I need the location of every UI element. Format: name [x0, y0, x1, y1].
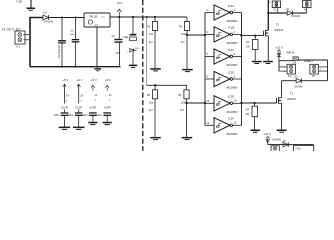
svg-text:100n: 100n — [96, 114, 102, 117]
svg-text:+5 V: +5 V — [91, 78, 97, 82]
svg-text:C2 470µ 25V: C2 470µ 25V — [57, 45, 59, 59]
svg-text:1N4148: 1N4148 — [286, 51, 295, 54]
svg-text:100n: 100n — [70, 34, 76, 36]
svg-text:78L05: 78L05 — [89, 15, 98, 19]
svg-text:IC1E: IC1E — [228, 95, 234, 99]
svg-text:100n: 100n — [68, 114, 74, 117]
svg-text:1N4148: 1N4148 — [294, 85, 303, 88]
svg-text:100n: 100n — [82, 114, 88, 117]
svg-text:IC1D: IC1D — [228, 70, 235, 74]
svg-text:IC1P: IC1P — [61, 106, 68, 110]
svg-text:K1B: K1B — [17, 0, 22, 4]
svg-text:+5 V: +5 V — [105, 78, 111, 82]
svg-text:40106BN: 40106BN — [226, 63, 237, 67]
svg-text:+12 V: +12 V — [263, 132, 271, 136]
svg-text:12: 12 — [234, 121, 237, 125]
svg-text:IC1F: IC1F — [228, 117, 234, 121]
svg-text:IC4P: IC4P — [104, 106, 111, 110]
svg-text:IC1C: IC1C — [228, 48, 235, 52]
svg-text:40106BN: 40106BN — [226, 110, 237, 114]
svg-text:1N4148: 1N4148 — [272, 138, 281, 141]
svg-text:IC1A: IC1A — [228, 4, 234, 8]
svg-text:IC1B: IC1B — [228, 26, 234, 30]
svg-text:K1: K1 — [17, 45, 21, 49]
svg-text:IC3P: IC3P — [90, 106, 97, 110]
svg-text:D1: D1 — [44, 11, 48, 15]
svg-text:T2: T2 — [290, 91, 294, 95]
svg-text:out: out — [102, 16, 105, 19]
svg-text:1N4148: 1N4148 — [44, 19, 54, 23]
svg-text:4µ7: 4µ7 — [149, 41, 154, 44]
svg-text:+5 V: +5 V — [76, 78, 82, 82]
svg-text:10: 10 — [234, 99, 237, 103]
svg-text:100n: 100n — [54, 114, 60, 117]
svg-text:13: 13 — [206, 121, 209, 125]
svg-text:Vtotaal 2: Vtotaal 2 — [304, 60, 314, 63]
svg-text:4n7: 4n7 — [180, 109, 185, 112]
svg-text:4n7: 4n7 — [181, 41, 186, 44]
svg-text:IC2P: IC2P — [75, 106, 82, 110]
svg-text:11: 11 — [206, 99, 209, 103]
svg-text:(7V)c: (7V)c — [296, 149, 302, 151]
svg-text:IRF540: IRF540 — [287, 97, 296, 101]
svg-text:40106BN: 40106BN — [226, 86, 237, 90]
svg-text:2V5: 2V5 — [116, 53, 121, 55]
svg-text:D1: D1 — [286, 7, 290, 11]
svg-text:T1: T1 — [276, 23, 280, 27]
svg-text:IRF540: IRF540 — [274, 28, 283, 32]
svg-text:40106BN: 40106BN — [226, 41, 237, 45]
svg-text:+12 V: +12 V — [275, 46, 283, 50]
svg-text:40106BN: 40106BN — [226, 132, 237, 136]
svg-text:+5 V: +5 V — [116, 1, 122, 5]
svg-text:+5 V: +5 V — [62, 78, 68, 82]
svg-text:4µ7: 4µ7 — [149, 109, 154, 112]
svg-text:40106BN: 40106BN — [226, 19, 237, 23]
svg-text:1N4148: 1N4148 — [291, 15, 300, 18]
